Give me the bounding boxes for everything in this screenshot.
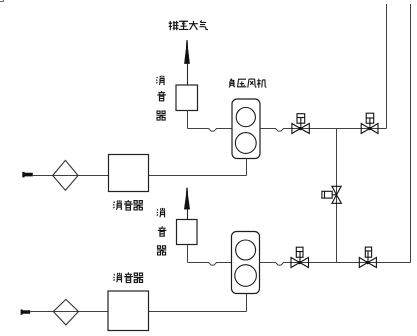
label: 消音器 vertical (bottom) <box>157 208 167 255</box>
valve V2 (top pipe, right) <box>361 113 378 133</box>
silencer box S1 (vertical, top) <box>176 85 198 111</box>
pipe: branch 2 horizontal <box>30 294 246 312</box>
label: 消音器 (above S4) <box>114 273 144 283</box>
valve V4 (bottom pipe, right) <box>359 247 376 267</box>
silencer box S4 (horizontal, bottom branch) <box>108 291 149 331</box>
label: 消音器 vertical (top) <box>156 76 166 120</box>
filter diamond D2 <box>53 299 78 325</box>
fan F2 body <box>232 232 260 294</box>
label: 负压风机 (negative pressure fan) <box>229 79 266 88</box>
pipe: fan F2 outlet right with flex bump to right standpipe <box>260 263 411 266</box>
silencer box S2 (vertical, bottom) <box>177 220 198 245</box>
inlet arrow branch 2 (left) <box>21 309 31 314</box>
filter diamond D1 <box>53 160 78 190</box>
valve V5 (three-way on middle vertical) <box>322 186 342 203</box>
inlet arrow branch 1 (left) <box>22 172 33 178</box>
silencer box S3 (horizontal, top branch) <box>109 155 149 192</box>
pipe: S2 outlet down then right to fan F2 inlet (with flex bump) <box>188 245 232 266</box>
fan F1 body <box>232 99 260 159</box>
exhaust arrow 1 (up spike) <box>184 40 189 85</box>
valve V3 (bottom pipe, left) <box>291 247 309 267</box>
pipe: middle cross-connection vertical <box>336 129 338 263</box>
valve V1 (top pipe, left) <box>292 114 309 134</box>
label: 排至大气 (exhaust to atmosphere) <box>169 21 208 31</box>
exhaust arrow 2 (up spike) <box>184 188 189 220</box>
corner mark top-left <box>0 0 4 2</box>
label: 消音器 (below S3) <box>113 200 143 210</box>
pipe: fan F1 outlet right with flex bump, to corner, up <box>260 4 387 131</box>
pipe: right standpipe 2 <box>410 4 412 263</box>
pipe: S1 outlet down then right to fan F1 inlet (with flex bump) <box>188 111 233 132</box>
pipe: branch 1 horizontal <box>33 159 247 176</box>
